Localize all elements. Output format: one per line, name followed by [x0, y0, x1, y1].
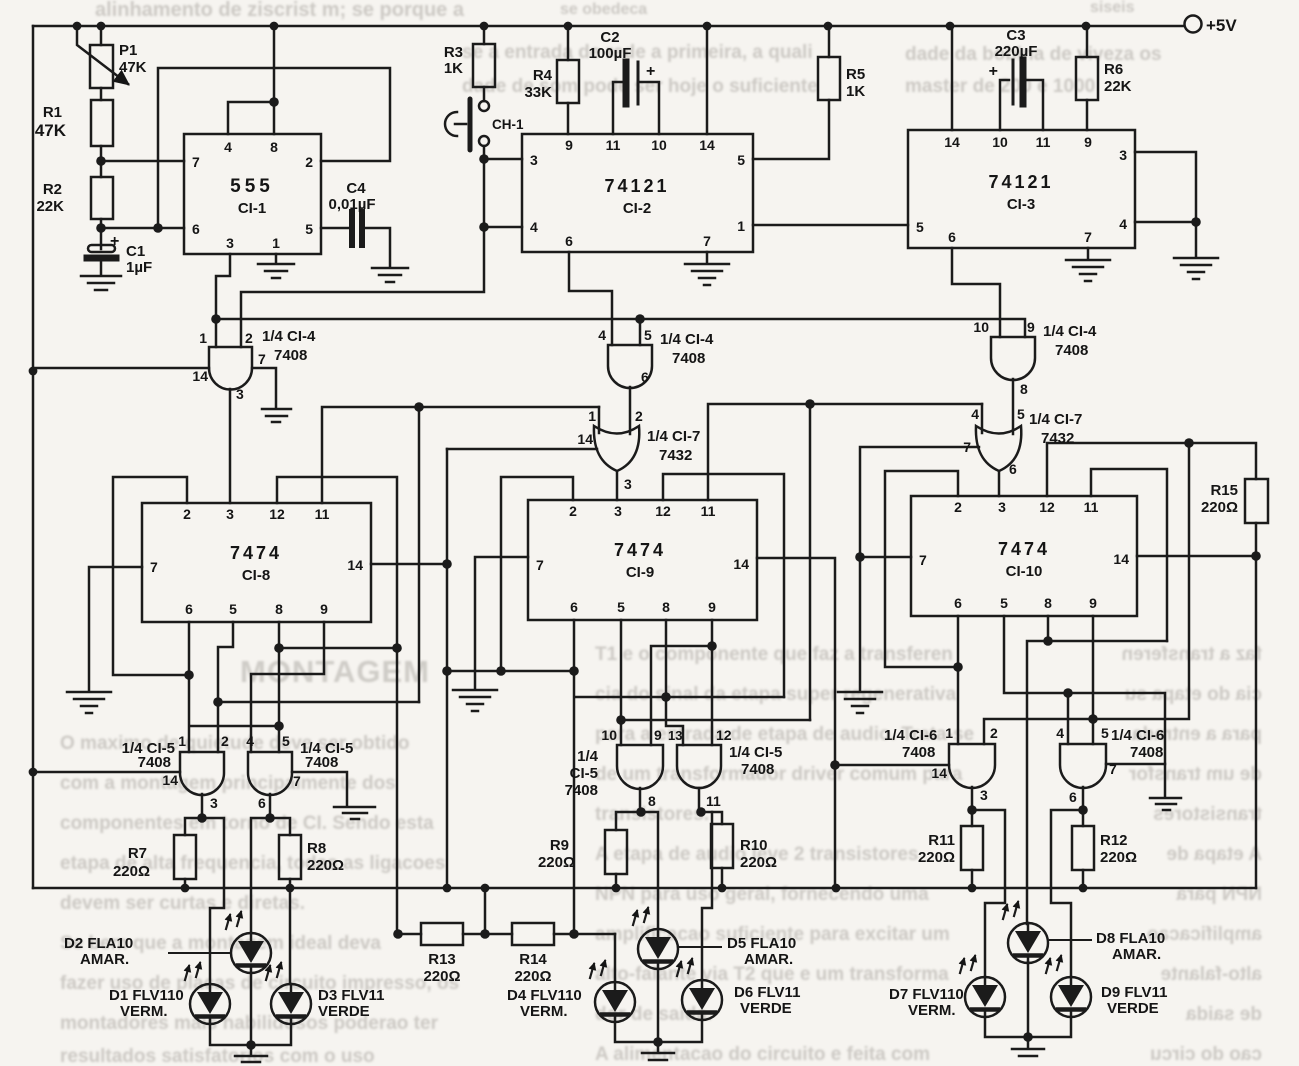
- svg-text:7408: 7408: [902, 744, 935, 761]
- wire CI-8 pin6 down to gate in1: [188, 622, 191, 752]
- svg-text:1/4 CI-6: 1/4 CI-6: [1111, 727, 1164, 744]
- svg-text:D7 FLV110: D7 FLV110: [889, 986, 964, 1003]
- wire drop x419: [418, 407, 421, 702]
- svg-text:7: 7: [150, 559, 158, 575]
- wire bottom rail: [33, 887, 1256, 890]
- and-gate U5b 1/4 CI-5: [248, 752, 292, 795]
- svg-text:7432: 7432: [659, 447, 692, 464]
- capacitor C4: [349, 212, 355, 245]
- resistor R7: [185, 818, 202, 835]
- svg-text:VERDE: VERDE: [1107, 1000, 1159, 1017]
- svg-text:8: 8: [648, 793, 656, 809]
- LED D6: [677, 959, 722, 1020]
- svg-text:6: 6: [565, 233, 573, 249]
- svg-text:7: 7: [919, 552, 927, 568]
- svg-text:2: 2: [569, 503, 577, 519]
- wire CI-9 pin2 staple: [501, 477, 573, 671]
- wire CI-8 pin8 branch to R13 column: [279, 647, 397, 650]
- capacitor C2: [613, 82, 622, 134]
- svg-text:D1 FLV110: D1 FLV110: [109, 987, 184, 1004]
- node left border junctions: [29, 367, 38, 777]
- svg-text:74121: 74121: [604, 176, 669, 196]
- svg-text:resultados satisfatorios com o: resultados satisfatorios com o uso: [60, 1046, 375, 1066]
- resistor R9: [616, 812, 641, 830]
- wire CI-10 pin12 to R15 wire: [1047, 443, 1256, 496]
- wire CI-2 pin6 to gate in4: [569, 252, 612, 345]
- svg-text:D9 FLV11: D9 FLV11: [1101, 984, 1167, 1001]
- svg-text:1: 1: [737, 218, 745, 234]
- wire CI-9 pin6 down to R13 net: [573, 620, 576, 934]
- ground below CI-3 pin4 wire: [1174, 258, 1218, 279]
- and-gate U6b 1/4 CI-6: [1060, 744, 1106, 788]
- wire signal rail 555 pin3: [216, 319, 1025, 337]
- wire D1-D2-D3 cathodes: [210, 1025, 291, 1045]
- svg-text:D3 FLV11: D3 FLV11: [318, 987, 384, 1004]
- svg-text:2: 2: [245, 330, 253, 346]
- svg-text:47K: 47K: [35, 121, 67, 140]
- label D5 pointer: [679, 946, 722, 948]
- or-gate U7a 1/4 CI-7: [594, 426, 639, 471]
- wire out6 node: [269, 794, 272, 818]
- wire gate1 input1: [215, 319, 218, 347]
- wire CI-8 pin7 to ground: [89, 567, 142, 690]
- wire CI-2 pin1 to CI-3 pin5: [753, 224, 908, 227]
- svg-text:11: 11: [701, 503, 716, 519]
- wire OR2 pin7 to ground: [860, 447, 979, 690]
- svg-text:R4: R4: [533, 67, 553, 84]
- wire CI-6b pin7 to ground: [1106, 764, 1165, 796]
- svg-text:220Ω: 220Ω: [918, 849, 955, 866]
- wire y646 to gate in9: [651, 646, 712, 745]
- wire 555 pin5 to C4: [321, 227, 349, 230]
- svg-text:11: 11: [1084, 499, 1099, 515]
- wire out3b node: [971, 787, 974, 810]
- svg-text:14: 14: [162, 772, 178, 788]
- svg-text:8: 8: [1044, 595, 1052, 611]
- svg-text:10: 10: [651, 137, 667, 153]
- svg-text:R15: R15: [1210, 482, 1238, 499]
- svg-text:MONTAGEM: MONTAGEM: [240, 654, 430, 689]
- svg-text:6: 6: [570, 599, 578, 615]
- IC U2 74121 CI-2 box: [522, 134, 753, 252]
- svg-text:14: 14: [931, 765, 947, 781]
- svg-text:7: 7: [703, 233, 711, 249]
- svg-text:3: 3: [980, 787, 988, 803]
- svg-text:7408: 7408: [1055, 342, 1088, 359]
- svg-text:1: 1: [945, 725, 953, 741]
- svg-text:220µF: 220µF: [995, 43, 1038, 60]
- wire CI-10 pin6 down to CI-6 in1: [957, 616, 960, 744]
- svg-text:VERM.: VERM.: [520, 1003, 568, 1020]
- svg-text:7: 7: [258, 351, 266, 367]
- svg-text:3: 3: [236, 386, 244, 402]
- svg-text:CI-8: CI-8: [242, 567, 270, 584]
- wire 555 pin7 to R1/R2: [101, 160, 184, 163]
- svg-text:7408: 7408: [274, 347, 307, 364]
- svg-text:6: 6: [1009, 461, 1017, 477]
- LED D8: [1003, 902, 1048, 963]
- resistor R15: [1245, 479, 1268, 523]
- svg-text:220Ω: 220Ω: [1100, 849, 1137, 866]
- LED D3: [266, 963, 311, 1024]
- svg-text:7: 7: [1109, 761, 1117, 777]
- svg-text:R13: R13: [428, 951, 456, 968]
- label D2 pointer: [168, 952, 232, 954]
- IC U10 7474 CI-10 box: [911, 496, 1137, 616]
- potentiometer P1: [100, 26, 103, 45]
- and-gate U4b 1/4 CI-4: [608, 345, 652, 388]
- resistor R6: [1086, 26, 1089, 57]
- wire CI-10 pin5 jog: [1004, 616, 1165, 764]
- svg-text:se a entrada de rede a primeir: se a entrada de rede a primeira, a quali: [462, 42, 813, 63]
- wire C4 to ground: [365, 228, 390, 266]
- svg-text:CI-1: CI-1: [238, 200, 266, 217]
- svg-text:220Ω: 220Ω: [423, 968, 460, 985]
- wire 555 pin1: [275, 254, 278, 262]
- switch CH-1: [479, 101, 489, 111]
- svg-text:5: 5: [617, 599, 625, 615]
- svg-text:5: 5: [916, 219, 924, 235]
- svg-text:1/4 CI-4: 1/4 CI-4: [1043, 323, 1097, 340]
- wire CH-1 to CI-2 pins 3,4: [241, 159, 522, 347]
- svg-text:3: 3: [210, 795, 218, 811]
- wire OR2 out6 to CI-10 pin3: [998, 471, 1001, 496]
- svg-text:4: 4: [971, 406, 979, 422]
- svg-text:4: 4: [246, 733, 254, 749]
- svg-text:10: 10: [973, 319, 989, 335]
- svg-text:T1 e o componente que faz a tr: T1 e o componente que faz a transferen: [595, 644, 953, 665]
- svg-text:3: 3: [624, 476, 632, 492]
- svg-text:12: 12: [655, 503, 671, 519]
- op-amp U1 555 CI-1 box: [184, 134, 321, 254]
- svg-text:C2: C2: [600, 29, 619, 46]
- svg-text:11: 11: [1036, 134, 1051, 150]
- svg-text:R6: R6: [1104, 61, 1123, 78]
- svg-text:5: 5: [1017, 406, 1025, 422]
- svg-text:7: 7: [536, 557, 544, 573]
- svg-text:14: 14: [192, 368, 208, 384]
- svg-text:9: 9: [320, 601, 328, 617]
- svg-text:5: 5: [1000, 595, 1008, 611]
- wire D4-D5-D6 cathodes: [615, 1020, 702, 1042]
- svg-text:AMAR.: AMAR.: [744, 951, 793, 968]
- resistor R10: [701, 812, 722, 824]
- wire y702 crossbar: [218, 701, 419, 704]
- ground below CI-2 pin7: [685, 264, 729, 285]
- wire 555 pins 4,8 to rail: [228, 26, 274, 134]
- wire rail to D3: [289, 888, 292, 984]
- svg-text:7: 7: [293, 773, 301, 789]
- svg-text:6: 6: [258, 795, 266, 811]
- svg-text:3: 3: [998, 499, 1006, 515]
- wire CI-2 pin14 to rail: [706, 26, 709, 134]
- ground CI-9 pin7: [453, 690, 497, 711]
- svg-text:R3: R3: [444, 44, 463, 61]
- svg-text:2: 2: [990, 725, 998, 741]
- svg-text:6: 6: [185, 601, 193, 617]
- svg-text:47K: 47K: [119, 59, 147, 76]
- and-gate U5a 1/4 CI-5: [180, 752, 224, 795]
- wire CI-8 pin14: [371, 563, 447, 566]
- ground below C1: [81, 276, 121, 290]
- wire out3 to D1: [202, 818, 224, 984]
- wire CI-8 pin9 jog to gate in4: [251, 622, 324, 752]
- svg-text:4: 4: [598, 327, 606, 343]
- svg-text:R12: R12: [1100, 832, 1128, 849]
- svg-text:7: 7: [1084, 229, 1092, 245]
- svg-text:R9: R9: [550, 837, 569, 854]
- svg-text:6: 6: [192, 221, 200, 237]
- and-gate U5d 1/4 CI-5: [677, 745, 721, 788]
- svg-text:7408: 7408: [138, 754, 171, 771]
- svg-text:8: 8: [662, 599, 670, 615]
- svg-text:1: 1: [272, 235, 280, 251]
- svg-text:+: +: [110, 233, 119, 250]
- label D8 pointer: [1049, 939, 1092, 941]
- svg-text:6: 6: [948, 229, 956, 245]
- resistor R1: [91, 100, 113, 146]
- svg-text:cia do sinal da etapa super re: cia do sinal da etapa super regenerativa: [595, 684, 957, 705]
- wire CI-9 pin9 down to gate in12: [711, 620, 714, 745]
- svg-text:3: 3: [530, 152, 538, 168]
- wire CI-8 pin8 to gate in5: [278, 622, 281, 752]
- wire CI-10 pin11 staple: [1091, 469, 1167, 641]
- svg-text:8: 8: [270, 139, 278, 155]
- svg-text:7408: 7408: [565, 782, 598, 799]
- svg-text:14: 14: [1113, 551, 1129, 567]
- LED D9: [1046, 956, 1091, 1017]
- svg-text:dade de som pode ser hoje o su: dade de som pode ser hoje o suficiente: [462, 76, 818, 97]
- wire out11 to D6: [702, 812, 712, 980]
- svg-text:3: 3: [614, 503, 622, 519]
- ground below CI-3 pin7: [1066, 260, 1110, 281]
- svg-text:D2 FLA10: D2 FLA10: [64, 935, 133, 952]
- svg-text:1/4: 1/4: [577, 748, 599, 765]
- svg-text:5: 5: [737, 152, 745, 168]
- svg-text:7408: 7408: [672, 350, 705, 367]
- wire out11 node: [698, 788, 701, 812]
- wire rail stub x485: [484, 888, 487, 934]
- svg-text:VERDE: VERDE: [740, 1000, 792, 1017]
- svg-text:1/4 CI-5: 1/4 CI-5: [729, 744, 782, 761]
- svg-text:de saida: de saida: [1186, 1004, 1262, 1025]
- svg-text:D5 FLA10: D5 FLA10: [727, 935, 796, 952]
- wire gate3 out8 to OR2 in5: [1012, 379, 1015, 434]
- svg-text:3: 3: [226, 506, 234, 522]
- svg-text:CI-2: CI-2: [623, 200, 651, 217]
- capacitor C1: [88, 245, 115, 252]
- svg-text:A etapa de: A etapa de: [1167, 844, 1262, 865]
- wire CI-10 pin8: [1047, 616, 1050, 641]
- svg-text:1µF: 1µF: [126, 259, 152, 276]
- wire CI-10 pin14 to R15 bottom: [1137, 555, 1256, 558]
- svg-text:2: 2: [635, 408, 643, 424]
- wire CI-10 pin2 staple: [885, 471, 958, 667]
- svg-text:1: 1: [178, 733, 186, 749]
- svg-text:2: 2: [183, 506, 191, 522]
- LED D5: [633, 908, 678, 969]
- svg-text:14: 14: [733, 556, 749, 572]
- IC U8 7474 CI-8 box: [142, 503, 371, 622]
- svg-text:1/4 CI-6: 1/4 CI-6: [884, 727, 937, 744]
- svg-text:8: 8: [1020, 381, 1028, 397]
- wire CI-9 pin14 bends down to rail: [757, 558, 835, 888]
- wire CI-6a pin14: [835, 764, 949, 767]
- svg-text:1K: 1K: [846, 83, 865, 100]
- svg-text:D8 FLA10: D8 FLA10: [1096, 930, 1165, 947]
- svg-text:de um transfor: de um transfor: [1128, 764, 1262, 785]
- svg-text:R10: R10: [740, 837, 768, 854]
- svg-text:100µF: 100µF: [589, 45, 632, 62]
- svg-text:14: 14: [347, 557, 363, 573]
- LED D7: [960, 956, 1005, 1017]
- wire CI-2 pin7: [706, 252, 709, 262]
- svg-text:9: 9: [1027, 319, 1035, 335]
- svg-text:C1: C1: [126, 243, 145, 260]
- ground D4-D6: [642, 1042, 674, 1060]
- +5V terminal: [1185, 16, 1202, 33]
- ground D1-D3: [235, 1045, 267, 1062]
- svg-text:8: 8: [275, 601, 283, 617]
- resistor R14: [512, 923, 554, 945]
- svg-text:6: 6: [1069, 789, 1077, 805]
- svg-text:7408: 7408: [1130, 744, 1163, 761]
- svg-text:220Ω: 220Ω: [740, 854, 777, 871]
- wire OR1 pin14 drop to rail: [446, 449, 449, 888]
- wire y697 pin8-pin12 tie: [575, 696, 784, 699]
- wire CI-8 pin12 up-over-down: [277, 477, 397, 934]
- svg-text:com a montagem principalmen: com a montagem principalmente dos: [60, 773, 396, 794]
- wire CI-9 pin5 down to gate in10: [620, 620, 623, 745]
- wire CI-3 pin7: [1087, 248, 1090, 258]
- svg-text:1: 1: [199, 330, 207, 346]
- svg-text:CI-3: CI-3: [1007, 196, 1035, 213]
- svg-text:CI-9: CI-9: [626, 564, 654, 581]
- svg-text:220Ω: 220Ω: [514, 968, 551, 985]
- svg-text:R8: R8: [307, 840, 326, 857]
- svg-text:9: 9: [708, 599, 716, 615]
- svg-text:7: 7: [192, 154, 200, 170]
- LED D1: [185, 963, 230, 1024]
- svg-text:7474: 7474: [230, 543, 282, 563]
- wire 555 pin6 to R2/C1: [101, 227, 184, 230]
- svg-text:1/4 CI-7: 1/4 CI-7: [647, 428, 700, 445]
- svg-text:14: 14: [577, 431, 593, 447]
- wire CI-10 pin9 to CI-6 in5: [1092, 616, 1095, 744]
- svg-text:11: 11: [606, 137, 621, 153]
- wire gate1 out3 to CI-8 pin3: [229, 389, 232, 503]
- svg-text:C3: C3: [1006, 27, 1025, 44]
- svg-text:+5V: +5V: [1206, 16, 1237, 35]
- svg-text:0,01µF: 0,01µF: [329, 196, 376, 213]
- resistor R4: [567, 26, 570, 60]
- resistor R5: [828, 26, 831, 57]
- wire out6b node: [1082, 787, 1085, 810]
- wire 555 pin3 output: [216, 254, 230, 319]
- wire y641 pin8 to pin11 staple and D8: [1027, 641, 1167, 924]
- LED D2: [226, 912, 271, 973]
- svg-text:cia do etapa su: cia do etapa su: [1125, 684, 1262, 705]
- svg-text:6: 6: [954, 595, 962, 611]
- svg-text:11: 11: [706, 793, 721, 809]
- svg-text:de um transformador driver com: de um transformador driver comum para: [595, 764, 963, 785]
- wire out3 node: [201, 794, 204, 818]
- svg-text:1: 1: [588, 408, 596, 424]
- svg-text:12: 12: [269, 506, 285, 522]
- svg-text:9: 9: [654, 727, 662, 743]
- node R2-C1 junction: [96, 223, 106, 233]
- svg-text:faz a transferen: faz a transferen: [1122, 644, 1262, 665]
- wire CI-8 pin11 to OR1 in1: [322, 407, 599, 503]
- wire CI-3 pins 3,4 tied: [1135, 152, 1196, 256]
- ground below C4: [372, 268, 408, 282]
- svg-text:CI-10: CI-10: [1006, 563, 1043, 580]
- svg-text:3: 3: [1119, 147, 1127, 163]
- svg-text:220Ω: 220Ω: [538, 854, 575, 871]
- wire CI-3 pin14 to rail: [951, 26, 954, 130]
- and-gate U5c 1/4 CI-5: [617, 745, 663, 789]
- node top rail junctions: [73, 22, 1091, 31]
- ground OR2/CI-10 pin7: [838, 692, 882, 713]
- svg-text:componentes em torno de CI. Se: componentes em torno de CI. Sendo esta: [60, 813, 434, 834]
- svg-text:555: 555: [230, 176, 274, 197]
- svg-text:33K: 33K: [524, 84, 552, 101]
- svg-text:5: 5: [644, 327, 652, 343]
- ground CI-5b pin7: [334, 807, 375, 819]
- svg-text:220Ω: 220Ω: [307, 857, 344, 874]
- svg-text:1K: 1K: [444, 60, 463, 77]
- wire CI-9 pin7 to ground: [475, 557, 528, 688]
- resistor R12: [1082, 810, 1085, 826]
- potentiometer P1 wiper: [77, 26, 128, 84]
- svg-text:P1: P1: [119, 42, 137, 59]
- svg-text:alinhamento de ziscrist m; se: alinhamento de ziscrist m; se porque a: [95, 0, 465, 21]
- svg-text:7474: 7474: [614, 540, 666, 560]
- svg-text:montadores mais habilidosos po: montadores mais habilidosos poderao ter: [60, 1013, 439, 1034]
- svg-text:R14: R14: [519, 951, 547, 968]
- svg-text:4: 4: [530, 219, 538, 235]
- wire CI-8 pin5 jog to gate in2: [218, 622, 233, 752]
- ground CI-6b pin7: [1150, 798, 1181, 810]
- svg-text:5: 5: [229, 601, 237, 617]
- node R1-R2 junction: [96, 156, 106, 166]
- wire x810 drop: [809, 404, 812, 720]
- svg-text:22K: 22K: [36, 198, 64, 215]
- svg-text:R5: R5: [846, 66, 865, 83]
- svg-text:1/4 CI-4: 1/4 CI-4: [660, 331, 714, 348]
- svg-text:C4: C4: [346, 180, 366, 197]
- wire OR2 in4: [981, 404, 984, 433]
- svg-text:2: 2: [221, 733, 229, 749]
- wire 555 pin2 feedback loop: [158, 68, 390, 228]
- wire +5V top rail: [33, 25, 1184, 28]
- ground gate1 pin7: [262, 409, 291, 422]
- resistor R3: [483, 26, 486, 44]
- svg-text:22K: 22K: [1104, 78, 1132, 95]
- wire OR1 pin14 stub: [447, 448, 597, 451]
- svg-text:+: +: [646, 63, 655, 80]
- svg-text:7408: 7408: [741, 761, 774, 778]
- wire gate2 input5: [639, 319, 642, 345]
- svg-text:A alimentacao do circuito e fe: A alimentacao do circuito e feita com: [595, 1044, 930, 1065]
- wire OR1 in1: [598, 407, 601, 433]
- resistor R13: [397, 933, 421, 936]
- svg-text:12: 12: [1039, 499, 1055, 515]
- wire R14 to D4: [614, 934, 617, 981]
- svg-text:devem ser curtas e diretas.: devem ser curtas e diretas.: [60, 893, 305, 914]
- svg-text:R1: R1: [43, 104, 62, 121]
- svg-text:se obedeca: se obedeca: [560, 1, 647, 18]
